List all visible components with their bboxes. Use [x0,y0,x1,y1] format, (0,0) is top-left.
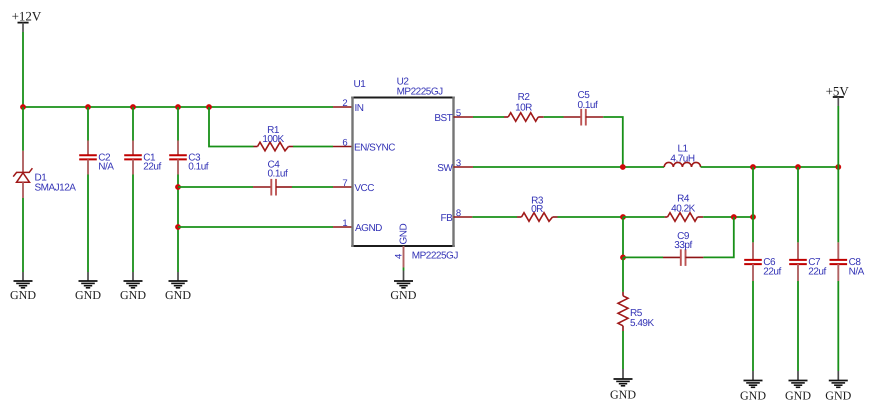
svg-text:GND: GND [825,388,851,402]
svg-text:+5V: +5V [826,84,850,99]
wire C1 top [132,107,134,141]
wire C7 top [797,167,799,242]
node SW/BST junction [620,164,626,170]
wire R2 to C5 [544,116,564,118]
svg-text:GND: GND [610,388,636,402]
svg-text:40.2K: 40.2K [671,204,695,215]
capacitor C5 [564,90,604,126]
svg-text:SMAJ12A: SMAJ12A [35,183,77,194]
svg-text:SW: SW [437,163,453,174]
power flag +12V [12,9,42,32]
inductor L1 [664,143,700,167]
ground C1 [120,272,146,302]
svg-text:MP2225GJ: MP2225GJ [412,251,459,262]
svg-text:+12V: +12V [12,9,42,24]
svg-text:GND: GND [399,224,410,245]
wire C4 to pin7 [292,186,333,188]
wire R5 bottom [622,331,624,369]
wire C9 to R4 node [703,217,733,257]
wire R3 to FB node [558,216,624,218]
node bus/C3 junction [175,104,181,110]
svg-text:0.1uf: 0.1uf [188,161,208,172]
node SW/C7 junction [795,164,801,170]
wire EN/SYNC branch [209,107,254,147]
capacitor C7 [789,242,826,281]
capacitor C1 [124,141,161,175]
pin 8 lead wire [454,216,473,218]
diode D1 [13,151,76,198]
pin 3 lead wire [454,166,474,168]
svg-text:0R: 0R [531,204,543,215]
wire C2 top [87,107,89,141]
svg-text:N/A: N/A [98,161,114,172]
node FB/R5 junction [620,214,626,220]
ground C8 [825,371,851,402]
svg-text:6: 6 [342,138,347,149]
pin 2 lead wire [333,106,353,108]
capacitor C6 [744,242,781,281]
wire D1 bottom [22,198,24,272]
capacitor C8 [830,242,865,281]
ground R5 [610,369,636,402]
svg-text:4.7uH: 4.7uH [670,154,694,165]
power flag +5V [826,84,850,107]
svg-text:7: 7 [342,178,347,189]
wire BST to R2 [473,116,504,118]
wire C1 bottom [132,175,134,273]
svg-text:0.1uf: 0.1uf [578,100,598,111]
capacitor C3 [169,141,209,175]
pin 5 lead wire [454,116,474,118]
resistor R1 [254,125,294,151]
wire AGND row [178,226,333,228]
node C3/VCC junction [175,184,181,190]
wire C7 bottom [797,281,799,371]
resistor R4 [665,193,704,221]
wire C3 top [177,107,179,141]
ground U1 [390,271,416,303]
wire R5 top [622,257,624,292]
pin 4 lead wire [403,246,405,268]
wire C9 row [623,256,663,258]
svg-text:N/A: N/A [849,267,865,278]
svg-text:22uf: 22uf [808,267,826,278]
resistor R3 [517,196,558,222]
node SW/C8 junction [835,164,841,170]
wire C6 bottom [752,281,754,371]
svg-text:22uf: 22uf [763,267,781,278]
svg-text:0.1uf: 0.1uf [268,169,288,180]
wire +12V stem [22,32,24,107]
resistor R5 [618,292,654,331]
node bus/C2 junction [85,104,91,110]
svg-text:VCC: VCC [354,183,374,194]
svg-text:GND: GND [740,388,766,402]
wire D1 top [22,107,24,151]
svg-text:GND: GND [75,288,101,302]
node bus/EN junction [206,104,212,110]
node FB/C6 junction [750,214,756,220]
wire C5 to SW node [603,117,623,167]
node R4/C9 junction [731,214,737,220]
wire C6 top [752,167,754,242]
node bus/C1 junction [130,104,136,110]
svg-text:FB: FB [441,213,454,224]
wire +5V stem [837,106,839,167]
svg-text:AGND: AGND [355,223,382,234]
node bus/D1 junction [20,104,26,110]
capacitor C2 [79,141,114,175]
resistor R2 [504,92,544,121]
pin 7 lead wire [333,186,353,188]
wire C2 bottom [87,175,89,273]
svg-text:GND: GND [390,288,416,302]
svg-text:2: 2 [342,98,347,109]
svg-text:GND: GND [10,288,36,302]
pin 1 lead wire [333,226,353,228]
ground D1 [10,272,36,302]
wire main +12V bus [23,106,333,108]
svg-text:5.49K: 5.49K [630,318,654,329]
op-amp U1 MP2225GJ body [351,77,458,262]
wire R1 to pin6 [293,146,333,148]
svg-text:EN/SYNC: EN/SYNC [354,143,395,154]
capacitor C4 [253,160,292,196]
pin 6 lead wire [333,146,353,148]
svg-text:10R: 10R [515,102,532,113]
svg-text:BST: BST [434,113,452,124]
ground C3 [165,272,191,302]
wire C3 bottom [177,175,179,273]
wire VCC row [178,186,253,188]
wire R4 to C6 column [703,216,753,218]
svg-text:22uf: 22uf [143,161,161,172]
svg-text:33pf: 33pf [674,240,692,251]
node C9/R5 junction [620,255,626,261]
svg-text:100K: 100K [262,134,284,145]
svg-text:IN: IN [355,103,364,114]
wire C8 top [837,167,839,242]
wire pin4 to gnd [403,268,405,271]
wire L1 to +5V [701,166,839,168]
wire FB node to R4 [623,216,665,218]
wire FB node down [622,217,624,257]
svg-text:U1: U1 [354,79,367,90]
wire C8 bottom [837,281,839,371]
wire SW row [473,166,664,168]
wire FB to R3 [472,216,517,218]
node SW/C6 junction [750,164,756,170]
svg-text:GND: GND [165,288,191,302]
ground C7 [785,371,811,402]
node C3/AGND junction [175,224,181,230]
svg-text:GND: GND [785,388,811,402]
svg-text:MP2225GJ: MP2225GJ [397,86,444,97]
svg-text:1: 1 [342,218,347,229]
ground C2 [75,272,101,302]
svg-text:GND: GND [120,288,146,302]
ground C6 [740,371,766,402]
capacitor C9 [663,231,703,266]
